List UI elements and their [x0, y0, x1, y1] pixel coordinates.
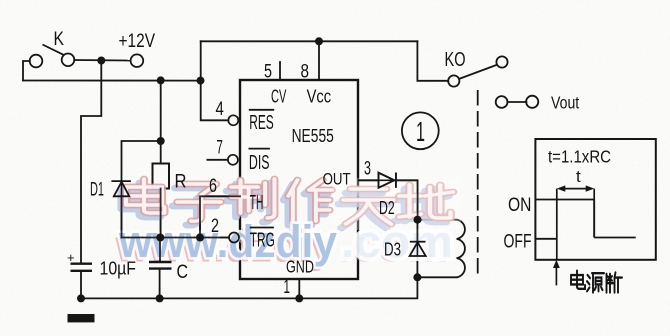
wire C top redraw [159, 238, 161, 263]
wire D2 cathode right then down to relay top [396, 180, 418, 219]
svg-text:R: R [175, 171, 187, 193]
power-cut arrow [553, 260, 560, 286]
junction dot rail x161 [157, 76, 165, 84]
wire R bottom to TRG wire [160, 189, 162, 238]
wire C bottom to ground rail [159, 269, 161, 299]
pin DIS bubble [228, 155, 238, 165]
timing marker right vertical [593, 189, 595, 238]
junction dot ground rail C [156, 294, 164, 302]
IC U1 NE555 box [240, 80, 358, 279]
svg-text:t: t [576, 167, 581, 186]
svg-text:K: K [54, 29, 65, 50]
wire relay bottom horizontal [417, 276, 456, 278]
wire 10uF bottom to ground rail [80, 271, 82, 299]
diode D2 redraw [379, 173, 396, 188]
waveform ON level line [535, 199, 594, 201]
wire switch K right terminal to +12V terminal [74, 59, 130, 62]
wire TRG horizontal y237 [122, 237, 230, 239]
svg-text:7: 7 [216, 137, 223, 158]
Vout terminal circle left [496, 96, 508, 108]
svg-text:C: C [177, 261, 189, 283]
svg-text:8: 8 [301, 60, 310, 82]
junction dot TRG wire R bottom [156, 234, 164, 242]
watermark line1 blue shadow [122, 183, 449, 228]
diode D3 cathode-up [410, 242, 426, 256]
wire D3 top segment redraw [416, 220, 418, 242]
callout circled 1 [402, 112, 439, 149]
switch K right terminal circle [62, 54, 75, 67]
wire D3 vertical segments [416, 220, 418, 278]
wire +12V junction down then left step to 10uF branch [81, 61, 101, 263]
wire R D1 branch vertical x161 [160, 80, 162, 163]
wire R bottom redraw [160, 189, 162, 238]
pin RES bubble [228, 115, 238, 125]
svg-text:TH: TH [250, 192, 264, 214]
wire pin5 stub [279, 62, 281, 80]
+12V terminal circle [131, 54, 144, 67]
svg-text:CV: CV [271, 86, 287, 107]
waveform OFF right segment [594, 237, 636, 239]
svg-text:D1: D1 [90, 179, 104, 200]
svg-text:2: 2 [211, 215, 219, 237]
junction dot +12V wire [97, 57, 105, 65]
watermark line1 pink outline [126, 179, 453, 224]
timing double arrow t [557, 185, 594, 191]
wire relay top horizontal [418, 219, 457, 221]
fade wash over tian-di chars [333, 178, 461, 230]
svg-text:ON: ON [508, 194, 531, 216]
svg-text:OUT: OUT [323, 170, 351, 189]
timing diagram box [535, 139, 655, 260]
switch K blade [43, 45, 64, 55]
junction dot relay bottom D3 [413, 273, 421, 281]
timing marker left vertical [556, 189, 558, 260]
label dianyuanduan power-cut glyphs [571, 271, 622, 293]
dashed actuation line [477, 90, 479, 277]
diode D2 pointing right [379, 173, 396, 188]
svg-text:+12V: +12V [119, 31, 156, 52]
Vout terminal circle right [526, 96, 538, 108]
wire D1 anode redraw [121, 196, 123, 237]
switch K left terminal circle [30, 55, 43, 68]
wire pin7 DIS stub [207, 159, 227, 161]
pin TRG bubble [229, 233, 239, 243]
svg-text:TRG: TRG [250, 229, 275, 251]
svg-text:10µF: 10µF [100, 258, 137, 279]
svg-text:Vcc: Vcc [307, 86, 332, 107]
junction dot D1 top branch [157, 137, 165, 145]
wire ground rail y298 up to relay bottom [81, 277, 417, 298]
junction dot rail x200 [197, 77, 205, 85]
junction dot top rail pin8 [315, 37, 323, 45]
resistor R box [153, 164, 170, 189]
svg-text:+: + [67, 250, 75, 265]
wire pin8 vertical from top rail to IC top [318, 41, 320, 80]
junction dot TRG wire TH branch [196, 234, 204, 242]
waveform falling edge [593, 200, 595, 238]
svg-text:DIS: DIS [249, 152, 270, 174]
ground symbol [68, 314, 95, 322]
wire left rail horizontal y80 [23, 80, 201, 82]
wire pin1 GND to ground rail [298, 279, 300, 298]
wire C top from TRG wire [159, 238, 161, 263]
waveform OFF left segment [535, 238, 556, 240]
svg-text:NE555: NE555 [292, 125, 334, 146]
junction dot relay top D2 [414, 216, 422, 224]
svg-text:6: 6 [209, 175, 217, 197]
wire D2 corner redraw [396, 180, 418, 219]
wire top rail y41 [201, 40, 418, 42]
wire from switch K left terminal down to left rail [23, 61, 30, 81]
svg-text:D3: D3 [384, 239, 401, 260]
svg-text:3: 3 [364, 158, 371, 180]
wire TH branch vertical and into IC [200, 196, 240, 237]
wire D1 anode down to TRG wire [121, 196, 123, 237]
svg-text:5: 5 [264, 60, 272, 82]
diode D1 cathode-up [111, 181, 130, 196]
capacitor 10uF plates [71, 264, 93, 271]
svg-text:RES: RES [249, 112, 274, 134]
wire KO feed from top rail right end [417, 41, 448, 81]
svg-text:GND: GND [286, 257, 314, 277]
svg-text:t=1.1xRC: t=1.1xRC [548, 147, 611, 167]
svg-text:KO: KO [445, 49, 466, 71]
wire OUT redraw [358, 179, 379, 181]
svg-text:4: 4 [216, 98, 224, 120]
capacitor C plates [149, 262, 172, 269]
wire TRG horizontal y237 redraw [122, 237, 230, 239]
wire TH branch redraw [200, 196, 240, 237]
scan noise backdrop [0, 0, 1, 1]
wire pin4 vertical from top rail down then to RES [201, 41, 229, 120]
switch KO pivot circle [448, 75, 459, 86]
svg-text:Vout: Vout [551, 92, 579, 112]
wire Vout terminal link [507, 101, 526, 103]
watermark line1 white core [126, 179, 453, 224]
relay coil [457, 220, 465, 278]
svg-text:D2: D2 [379, 197, 395, 218]
junction dot ground rail 10uF [77, 294, 85, 302]
switch KO blade [459, 65, 497, 79]
junction dot ground rail pin1 [295, 294, 303, 302]
switch KO upper terminal circle [496, 56, 507, 67]
wire OUT pin3 to D2 anode [358, 179, 379, 181]
svg-text:1: 1 [416, 116, 425, 147]
svg-text:OFF: OFF [504, 231, 532, 253]
svg-text:1: 1 [284, 276, 291, 298]
redraw wires under watermark [122, 180, 418, 262]
wire D1 branch horizontal down to D1 cathode [122, 141, 161, 181]
